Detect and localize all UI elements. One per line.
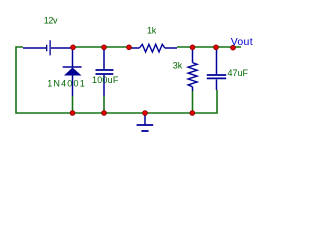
svg-text:1N4001: 1N4001 [47, 78, 86, 88]
svg-text:1k: 1k [147, 25, 157, 35]
svg-text:Vout: Vout [231, 36, 253, 48]
svg-text:3k: 3k [173, 60, 183, 70]
svg-text:100uF: 100uF [92, 75, 119, 85]
svg-text:47uF: 47uF [228, 68, 249, 78]
svg-text:12v: 12v [44, 16, 58, 26]
